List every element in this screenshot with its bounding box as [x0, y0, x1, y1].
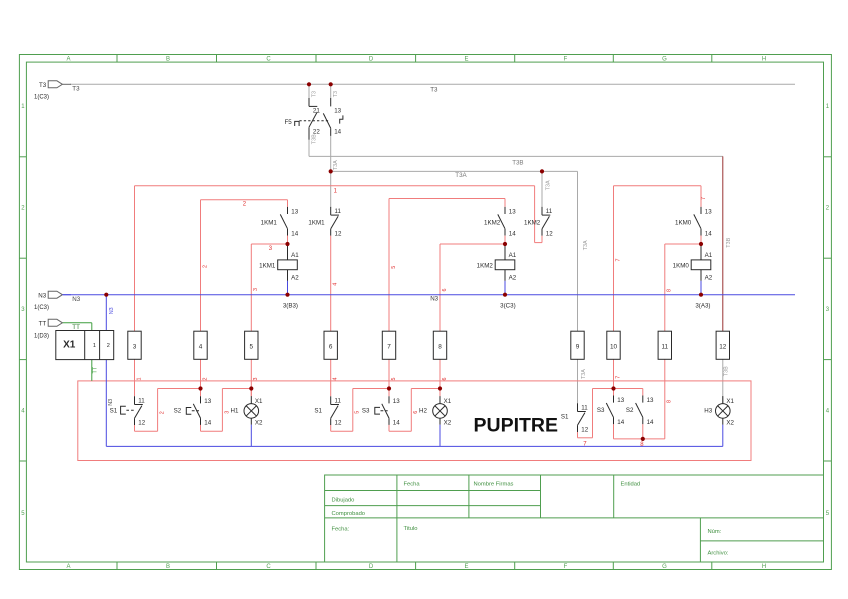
svg-text:H2: H2	[419, 408, 427, 415]
svg-text:B: B	[166, 57, 170, 63]
svg-text:T3: T3	[39, 82, 47, 89]
svg-text:1KM0: 1KM0	[675, 219, 692, 226]
svg-text:F5: F5	[284, 119, 292, 126]
svg-text:X1: X1	[726, 398, 734, 405]
svg-text:2: 2	[107, 343, 110, 349]
svg-text:Fecha:: Fecha:	[332, 526, 350, 532]
svg-text:3(A3): 3(A3)	[695, 303, 710, 310]
svg-text:3(C3): 3(C3)	[500, 303, 515, 310]
svg-text:C: C	[266, 57, 271, 63]
svg-text:N3: N3	[109, 307, 115, 314]
svg-text:5: 5	[391, 378, 397, 381]
svg-text:12: 12	[719, 343, 727, 350]
svg-text:Entidad: Entidad	[621, 482, 641, 488]
svg-text:14: 14	[291, 230, 298, 237]
svg-text:4: 4	[332, 378, 338, 381]
svg-text:1KM1: 1KM1	[259, 262, 276, 269]
svg-text:H: H	[762, 564, 766, 570]
svg-text:Titulo: Titulo	[404, 526, 418, 532]
svg-text:Dibujado: Dibujado	[332, 498, 355, 504]
svg-text:X2: X2	[444, 420, 452, 427]
svg-text:1(D3): 1(D3)	[34, 333, 49, 339]
svg-text:H1: H1	[231, 408, 239, 415]
svg-text:1KM0: 1KM0	[673, 262, 690, 269]
svg-text:7: 7	[615, 376, 621, 379]
svg-text:14: 14	[509, 230, 516, 237]
svg-text:13: 13	[291, 209, 298, 216]
svg-text:12: 12	[138, 420, 145, 427]
svg-text:D: D	[369, 57, 374, 63]
svg-text:S3: S3	[597, 407, 605, 414]
svg-text:N3: N3	[430, 296, 438, 303]
svg-text:T3: T3	[333, 91, 339, 97]
svg-text:2: 2	[202, 378, 208, 381]
svg-text:14: 14	[647, 419, 654, 426]
svg-text:3: 3	[253, 378, 259, 381]
svg-text:6: 6	[329, 343, 333, 350]
svg-text:A2: A2	[705, 275, 713, 282]
svg-text:3(B3): 3(B3)	[283, 303, 298, 310]
svg-text:A1: A1	[705, 252, 713, 259]
svg-text:21: 21	[313, 107, 320, 114]
svg-text:T3A: T3A	[583, 240, 589, 250]
svg-text:11: 11	[335, 208, 342, 215]
svg-text:S2: S2	[174, 408, 182, 415]
svg-text:3: 3	[225, 411, 231, 414]
svg-text:E: E	[464, 564, 468, 570]
svg-text:A1: A1	[509, 252, 517, 259]
svg-text:A1: A1	[291, 252, 299, 259]
svg-text:Nombre Firmas: Nombre Firmas	[474, 482, 514, 488]
svg-text:8: 8	[666, 289, 672, 292]
svg-text:A: A	[66, 57, 70, 63]
svg-text:1(C3): 1(C3)	[34, 94, 49, 100]
svg-text:14: 14	[334, 129, 341, 136]
svg-text:A2: A2	[509, 275, 517, 282]
svg-text:3: 3	[133, 343, 137, 350]
svg-text:1KM1: 1KM1	[308, 219, 325, 226]
svg-text:13: 13	[647, 397, 654, 404]
svg-text:12: 12	[335, 230, 342, 237]
svg-text:10: 10	[610, 343, 618, 350]
svg-text:6: 6	[442, 289, 448, 292]
svg-text:11: 11	[661, 343, 668, 350]
svg-text:12: 12	[546, 230, 553, 237]
svg-text:G: G	[662, 564, 667, 570]
svg-text:X1: X1	[255, 398, 263, 405]
svg-text:T3: T3	[430, 87, 438, 94]
svg-text:N3: N3	[38, 292, 46, 299]
svg-text:14: 14	[617, 419, 624, 426]
svg-text:11: 11	[546, 208, 553, 215]
svg-text:2: 2	[159, 411, 165, 414]
svg-text:TT: TT	[72, 324, 80, 331]
svg-text:5: 5	[250, 343, 254, 350]
svg-text:T3A: T3A	[455, 172, 467, 179]
svg-text:S1: S1	[314, 408, 322, 415]
svg-text:13: 13	[334, 107, 341, 114]
svg-text:Archivo:: Archivo:	[708, 551, 729, 557]
svg-text:B: B	[166, 564, 170, 570]
svg-text:D: D	[369, 564, 374, 570]
svg-text:13: 13	[204, 398, 211, 405]
svg-text:Núm:: Núm:	[708, 529, 722, 535]
svg-text:E: E	[464, 57, 468, 63]
svg-text:TT: TT	[92, 366, 98, 373]
svg-text:5: 5	[354, 411, 360, 414]
svg-text:G: G	[662, 57, 667, 63]
svg-text:7: 7	[387, 343, 391, 350]
svg-text:1(C3): 1(C3)	[34, 305, 49, 311]
svg-text:7: 7	[701, 197, 707, 200]
svg-text:4: 4	[199, 343, 203, 350]
svg-text:11: 11	[581, 405, 588, 412]
svg-text:T3B: T3B	[311, 134, 317, 144]
svg-text:A: A	[66, 564, 70, 570]
svg-text:3: 3	[253, 288, 259, 291]
svg-text:1KM2: 1KM2	[477, 262, 494, 269]
svg-text:T3B: T3B	[512, 160, 523, 167]
svg-text:13: 13	[509, 209, 516, 216]
svg-text:F: F	[564, 57, 568, 63]
svg-text:T3B: T3B	[726, 237, 732, 247]
svg-text:N3: N3	[72, 296, 80, 303]
svg-text:14: 14	[204, 420, 211, 427]
svg-text:A2: A2	[291, 275, 299, 282]
svg-text:12: 12	[581, 427, 588, 434]
svg-text:1KM2: 1KM2	[484, 219, 501, 226]
svg-text:S2: S2	[626, 407, 634, 414]
svg-text:13: 13	[617, 397, 624, 404]
svg-text:X2: X2	[255, 420, 263, 427]
svg-text:F: F	[564, 564, 568, 570]
svg-text:9: 9	[576, 343, 580, 350]
svg-text:T3A: T3A	[581, 369, 587, 379]
svg-text:S1: S1	[110, 408, 118, 415]
svg-text:T3: T3	[72, 85, 80, 92]
svg-text:X1: X1	[63, 339, 76, 350]
svg-text:11: 11	[138, 398, 145, 405]
svg-text:N3: N3	[108, 399, 114, 406]
svg-text:5: 5	[391, 266, 397, 269]
svg-text:PUPITRE: PUPITRE	[474, 415, 559, 437]
svg-text:8: 8	[666, 400, 672, 403]
svg-text:14: 14	[705, 230, 712, 237]
svg-text:14: 14	[393, 420, 400, 427]
svg-text:X1: X1	[444, 398, 452, 405]
svg-text:T3A: T3A	[546, 180, 552, 190]
svg-text:1KM2: 1KM2	[524, 219, 541, 226]
svg-text:13: 13	[393, 398, 400, 405]
svg-text:T3A: T3A	[333, 160, 339, 170]
svg-text:S1: S1	[561, 413, 569, 420]
svg-text:H: H	[762, 57, 766, 63]
svg-text:T3B: T3B	[723, 366, 729, 376]
svg-text:TT: TT	[39, 321, 47, 328]
svg-text:11: 11	[335, 398, 342, 405]
svg-text:S3: S3	[362, 408, 370, 415]
svg-text:7: 7	[615, 259, 621, 262]
svg-text:Comprobado: Comprobado	[332, 511, 366, 517]
svg-text:6: 6	[442, 378, 448, 381]
svg-text:6: 6	[413, 411, 419, 414]
svg-text:2: 2	[202, 265, 208, 268]
svg-text:C: C	[266, 564, 271, 570]
svg-text:8: 8	[438, 343, 442, 350]
svg-text:13: 13	[705, 209, 712, 216]
svg-text:1: 1	[93, 343, 96, 349]
svg-text:1KM1: 1KM1	[261, 219, 278, 226]
svg-text:H3: H3	[704, 408, 712, 415]
svg-text:Fecha: Fecha	[404, 482, 421, 488]
svg-text:1: 1	[136, 378, 142, 381]
svg-text:T3: T3	[311, 91, 317, 97]
svg-text:4: 4	[332, 283, 338, 286]
svg-text:12: 12	[335, 420, 342, 427]
svg-text:X2: X2	[726, 420, 734, 427]
